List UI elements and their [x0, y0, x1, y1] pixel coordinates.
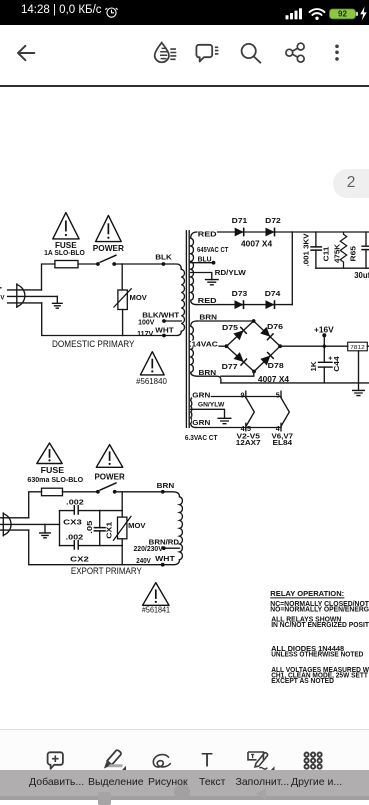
wire: MOV/cap branch down: [121, 492, 123, 517]
svg-text:D74: D74: [265, 289, 282, 298]
bottom toolbar separator: [0, 729, 369, 730]
wire: heater bottom: [196, 427, 281, 429]
svg-text:630ma SLO-BLO: 630ma SLO-BLO: [27, 475, 83, 484]
wire: bridge right to 7812: [280, 345, 348, 347]
svg-text:4007 X4: 4007 X4: [241, 239, 273, 248]
svg-text:+16V: +16V: [314, 325, 334, 334]
svg-text:BRN: BRN: [199, 312, 217, 321]
AC plug P1 (domestic): [8, 284, 58, 307]
6.3VAC winding: [191, 397, 196, 428]
wire: top RED to D71/D72 rail: [197, 231, 369, 233]
svg-text:WHT: WHT: [155, 326, 174, 335]
svg-text:1A SLO-BLO: 1A SLO-BLO: [44, 248, 85, 257]
pin tick 9: [245, 391, 247, 398]
label BLU: [197, 255, 212, 262]
svg-text:IN NC/NOT ENERGIZED POSIT: IN NC/NOT ENERGIZED POSIT: [271, 622, 369, 629]
svg-text:D73: D73: [232, 289, 248, 298]
diode D77: [233, 352, 247, 366]
schematic page: [0, 86, 369, 730]
capacitor C44 1K +: [318, 362, 333, 383]
warning triangle (export power): [96, 445, 123, 468]
svg-text:GN/YLW: GN/YLW: [198, 401, 225, 408]
status bar: [0, 0, 369, 25]
ground (plug, export): [39, 524, 51, 537]
svg-text:.002: .002: [66, 497, 84, 506]
switch S2 (power, export): [96, 483, 117, 494]
label GRN (top): [192, 391, 211, 398]
varistor MOV (domestic): [114, 288, 147, 335]
node +16V: [322, 333, 326, 337]
svg-text:D75: D75: [222, 323, 238, 332]
ground (7812): [352, 390, 365, 395]
svg-text:30uf: 30uf: [354, 271, 369, 280]
svg-text:RED: RED: [198, 230, 217, 239]
capacitor 30uf (cut at edge): [361, 232, 369, 268]
wire: BRN to bridge top: [197, 320, 254, 322]
tap BRN/RD 220/230V: [164, 547, 180, 549]
wire: 7812 output: [367, 345, 369, 347]
wire: HV bottom rail: [316, 267, 369, 269]
capacitor CX2 .002: [74, 540, 78, 550]
tap BLU: [191, 262, 214, 264]
fuse F2 630ma: [42, 488, 63, 496]
node bridge right: [278, 344, 282, 348]
tap BLK/WHT 100V: [164, 320, 181, 322]
primary winding (domestic): [181, 269, 184, 331]
capacitor CX3 .002: [74, 505, 78, 515]
pin tick 4|5: [245, 423, 247, 431]
capacitor CX1 .05: [94, 511, 106, 546]
svg-text:92: 92: [338, 10, 347, 19]
capacitor C11 .001 3KV: [310, 232, 322, 268]
wire: 14VAC tap to bridge left: [191, 345, 227, 347]
svg-text:T: T: [201, 751, 213, 772]
svg-text:CX3: CX3: [63, 518, 82, 527]
wire: switch to BRN (export): [115, 492, 180, 497]
label BRN (bottom): [198, 369, 217, 376]
label 4007 X4 (top): [241, 240, 273, 247]
label 14VAC: [191, 341, 219, 348]
svg-text:D71: D71: [232, 216, 248, 225]
svg-text:RELAY OPERATION:: RELAY OPERATION:: [270, 589, 344, 598]
node C44 junction: [323, 345, 326, 348]
faint nav shapes: [98, 792, 111, 805]
svg-text:.05: .05: [85, 521, 94, 534]
heater chevron V2-V5: [246, 398, 254, 427]
svg-text:7812: 7812: [350, 345, 365, 351]
label GRN (bottom): [192, 419, 211, 426]
svg-text:GRN: GRN: [192, 390, 210, 399]
svg-text:V: V: [0, 295, 5, 302]
svg-text:1K: 1K: [309, 361, 318, 372]
add note icon: [48, 752, 63, 769]
diode D75: [233, 327, 247, 341]
svg-text:6.3VAC CT: 6.3VAC CT: [185, 433, 218, 442]
wire: plug hot up to fuse (export): [29, 492, 42, 518]
cut-off mains label at page edge: [0, 288, 5, 302]
wire: plug hot up to fuse: [42, 264, 55, 290]
node bridge left: [225, 344, 229, 348]
warning triangle (power): [96, 215, 122, 241]
node bridge bottom: [252, 370, 256, 374]
node BLK tap dot: [162, 262, 166, 266]
14VAC winding: [191, 321, 197, 376]
svg-text:EL84: EL84: [273, 438, 293, 447]
svg-text:BLK: BLK: [155, 252, 172, 261]
svg-text:RD/YLW: RD/YLW: [215, 268, 247, 277]
warning triangle #561840: [140, 352, 164, 375]
svg-text:9: 9: [241, 390, 245, 399]
svg-text:MOV: MOV: [128, 521, 145, 530]
switch S1 (power, domestic): [96, 255, 117, 266]
svg-text:100V: 100V: [138, 317, 154, 326]
export primary winding: [180, 497, 183, 560]
HV secondary winding 645VAC CT: [191, 232, 197, 305]
svg-text:12AX7: 12AX7: [236, 438, 261, 447]
svg-text:BLU: BLU: [198, 254, 212, 263]
svg-text:DOMESTIC PRIMARY: DOMESTIC PRIMARY: [52, 339, 135, 349]
draw squiggle icon: [153, 755, 170, 767]
svg-text:.001 3KV: .001 3KV: [301, 233, 310, 266]
wire: MOV branch: [121, 264, 123, 290]
page number pill: [333, 169, 369, 198]
wire: X-cap left rail: [59, 511, 61, 546]
svg-text:D77: D77: [222, 362, 238, 371]
wire: fuse to switch (export): [63, 491, 98, 493]
diode D76: [260, 327, 274, 341]
diode D71: [235, 228, 244, 237]
pin tick 4 (EL84): [280, 423, 282, 431]
svg-text:MOV: MOV: [130, 293, 147, 302]
svg-text:D78: D78: [268, 361, 284, 370]
wire: D74 output up to rail: [291, 232, 293, 305]
svg-text:EXCEPT AS NOTED: EXCEPT AS NOTED: [271, 678, 334, 685]
svg-text:WHT: WHT: [155, 554, 175, 563]
svg-text:GRN: GRN: [192, 418, 210, 427]
svg-text:CX1: CX1: [104, 522, 113, 539]
svg-text:BRN: BRN: [157, 481, 175, 490]
svg-text:NO=NORMALLY OPEN/ENERG: NO=NORMALLY OPEN/ENERG: [270, 607, 369, 614]
svg-text:220/230V: 220/230V: [134, 544, 163, 553]
regulator U? 7812: [348, 342, 368, 351]
label RED (top): [197, 231, 217, 238]
svg-text:FUSE: FUSE: [41, 466, 65, 475]
node WHT 117V dot: [162, 334, 166, 338]
svg-text:CX2: CX2: [70, 555, 89, 564]
ground (RD/YLW): [205, 280, 219, 285]
warning triangle (export fuse): [37, 443, 62, 464]
label RED (bottom): [197, 297, 217, 304]
top toolbar: [0, 25, 369, 85]
ground (plug, domestic): [52, 296, 63, 308]
svg-text:R65: R65: [348, 246, 357, 262]
highlighter icon: [104, 750, 126, 772]
svg-text:UNLESS OTHERWISE NOTED: UNLESS OTHERWISE NOTED: [271, 651, 363, 658]
svg-text:240V: 240V: [136, 556, 151, 565]
transformer T1 core: [186, 230, 189, 428]
svg-text:645VAC CT: 645VAC CT: [197, 245, 229, 254]
diode D78: [260, 352, 274, 366]
more tools grid icon: [305, 753, 322, 769]
svg-text:14VAC: 14VAC: [192, 339, 218, 348]
toolbar labels: [0, 776, 369, 790]
label GN/YLW: [197, 401, 225, 408]
svg-text:117V: 117V: [137, 329, 153, 338]
label BRN (top): [199, 313, 218, 320]
warning triangle #561841: [143, 583, 169, 606]
wire: bottom rail (neutral) to WHT: [42, 303, 182, 336]
diode D72: [266, 228, 275, 237]
wire: +16V stub down through rail to C44: [323, 335, 325, 362]
wire: bottom rail (export): [29, 530, 180, 565]
svg-text:EXPORT PRIMARY: EXPORT PRIMARY: [71, 566, 142, 576]
wire: heater top: [196, 396, 281, 398]
svg-text:D72: D72: [265, 216, 281, 225]
node BRN dot (export): [161, 490, 165, 494]
bottom toolbar: [0, 730, 369, 771]
form fill icon: [248, 752, 268, 769]
AC plug P2 (export): [0, 513, 60, 536]
pin tick 5 (EL84): [280, 391, 282, 398]
svg-text:.002: .002: [66, 532, 84, 541]
diode D74: [266, 300, 275, 309]
svg-text:#561840: #561840: [136, 377, 167, 386]
heater chevron V6,V7: [281, 398, 289, 427]
node WHT 240V dot: [161, 563, 165, 567]
varistor MOV (export): [113, 516, 145, 565]
svg-text:475K: 475K: [333, 243, 342, 263]
warning triangle (fuse): [53, 213, 79, 239]
wire: ground rail: [221, 382, 369, 384]
wire: X-cap bottom rail: [60, 545, 123, 547]
svg-text:D76: D76: [267, 322, 283, 331]
bridge diamond wires: [227, 321, 281, 372]
gray nav overlay band: [0, 770, 369, 800]
fuse F1 1A: [55, 261, 78, 268]
svg-text:C44: C44: [332, 355, 341, 371]
svg-text:POWER: POWER: [94, 472, 124, 481]
svg-text:#561841: #561841: [142, 606, 170, 615]
svg-text:C11: C11: [322, 247, 331, 262]
wire: BRN bottom hook to ground rail: [197, 376, 221, 383]
wire: bottom RED through D73/D74: [197, 304, 292, 306]
ground (GN/YLW): [218, 418, 232, 423]
wire: branch to bridge bottom: [221, 372, 254, 377]
node bridge top: [252, 319, 256, 323]
diode D73: [235, 300, 244, 309]
svg-text:5: 5: [276, 390, 280, 399]
wire: 7812 ground leg: [358, 351, 360, 391]
wire: X-cap top rail: [60, 510, 123, 512]
svg-text:POWER: POWER: [93, 244, 124, 253]
tap RD/YLW to ground: [191, 273, 212, 280]
tap GN/YLW to ground: [191, 409, 225, 418]
svg-text:RED: RED: [198, 296, 217, 305]
wire: fuse to switch: [78, 263, 98, 265]
wire: switch to transformer BLK: [114, 264, 181, 269]
resistor R65 475K: [340, 232, 346, 268]
